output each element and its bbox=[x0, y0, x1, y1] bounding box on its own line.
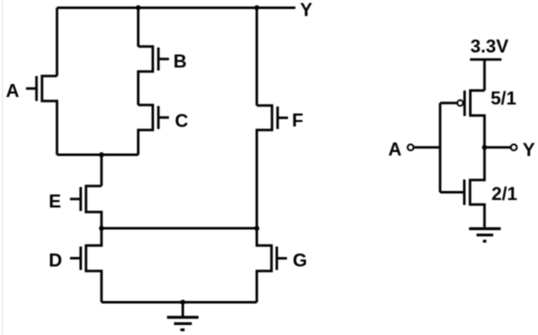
transistor C gate bar bbox=[157, 106, 160, 129]
transistor A gate lead bbox=[26, 87, 37, 90]
transistor B gate bar bbox=[157, 48, 160, 71]
transistor C gate lead bbox=[158, 116, 169, 119]
wire: output to Y bbox=[485, 146, 511, 149]
transistor A channel jog bbox=[42, 76, 57, 155]
transistor B channel jog bbox=[138, 47, 153, 106]
transistor F gate bar bbox=[276, 107, 279, 130]
transistor C channel jog bbox=[138, 105, 153, 155]
transistor D channel jog bbox=[86, 228, 102, 302]
transistor F gate lead bbox=[278, 117, 288, 120]
svg-text:A: A bbox=[6, 80, 19, 101]
svg-text:C: C bbox=[175, 110, 188, 131]
wire: input A lead bbox=[414, 146, 441, 149]
nmos gate bar bbox=[463, 180, 466, 206]
svg-text:Y: Y bbox=[523, 139, 536, 160]
ground symbol right bbox=[469, 229, 501, 242]
svg-text:B: B bbox=[173, 50, 186, 71]
wire: from power rail down to PMOS bbox=[483, 60, 486, 91]
nmos gate lead bbox=[440, 191, 464, 194]
transistor G gate bar bbox=[276, 247, 279, 271]
svg-text:5/1: 5/1 bbox=[491, 87, 517, 108]
pmos bubble bbox=[457, 100, 463, 106]
transistor E channel jog bbox=[86, 186, 102, 228]
wire: top rail of left gate bbox=[57, 6, 295, 9]
wire: left branch down to transistor A bbox=[56, 8, 59, 76]
wire: B/C branch from top rail bbox=[137, 8, 140, 47]
wire: F branch from top rail bbox=[256, 8, 259, 106]
output junction dot bbox=[482, 145, 487, 150]
svg-text:2/1: 2/1 bbox=[492, 183, 518, 204]
nmos 2/1 channel jog bbox=[470, 147, 485, 227]
svg-text:3.3V: 3.3V bbox=[470, 36, 509, 57]
transistor E gate bar bbox=[79, 187, 82, 211]
transistor D gate bar bbox=[79, 247, 82, 271]
svg-text:D: D bbox=[49, 249, 62, 270]
ground symbol left bbox=[167, 317, 199, 330]
labels left circuit bbox=[6, 0, 313, 271]
power rail bar 3.3V bbox=[470, 58, 502, 61]
labels right circuit bbox=[388, 36, 535, 205]
wire: node between A and B/C branches bbox=[57, 154, 138, 157]
output terminal circle Y bbox=[511, 144, 517, 150]
junction dots left circuit bbox=[99, 5, 259, 305]
svg-text:E: E bbox=[49, 190, 61, 211]
wire: input gate vertical bbox=[439, 103, 442, 192]
wire: middle node E/D to F/G bbox=[102, 227, 257, 230]
svg-text:G: G bbox=[293, 250, 307, 271]
transistor B gate lead bbox=[158, 58, 169, 61]
wire: down to transistor E bbox=[100, 155, 103, 186]
svg-text:A: A bbox=[388, 139, 401, 160]
pmos gate lead bbox=[440, 102, 457, 105]
transistor G gate lead bbox=[277, 257, 287, 260]
transistor D gate lead bbox=[70, 257, 81, 260]
svg-text:F: F bbox=[292, 109, 303, 130]
pmos 5/1 channel jog bbox=[470, 91, 484, 148]
wire: bottom rail bbox=[102, 301, 257, 304]
transistor A gate bar bbox=[35, 76, 38, 101]
input terminal circle A bbox=[408, 144, 414, 150]
ground stub left bbox=[182, 302, 185, 316]
svg-text:Y: Y bbox=[300, 0, 313, 20]
faint left border artifact bbox=[2, 0, 4, 335]
pmos gate bar bbox=[463, 91, 466, 117]
transistor G channel jog bbox=[257, 228, 272, 302]
transistor F channel jog bbox=[257, 106, 272, 229]
transistor E gate lead bbox=[70, 198, 81, 201]
